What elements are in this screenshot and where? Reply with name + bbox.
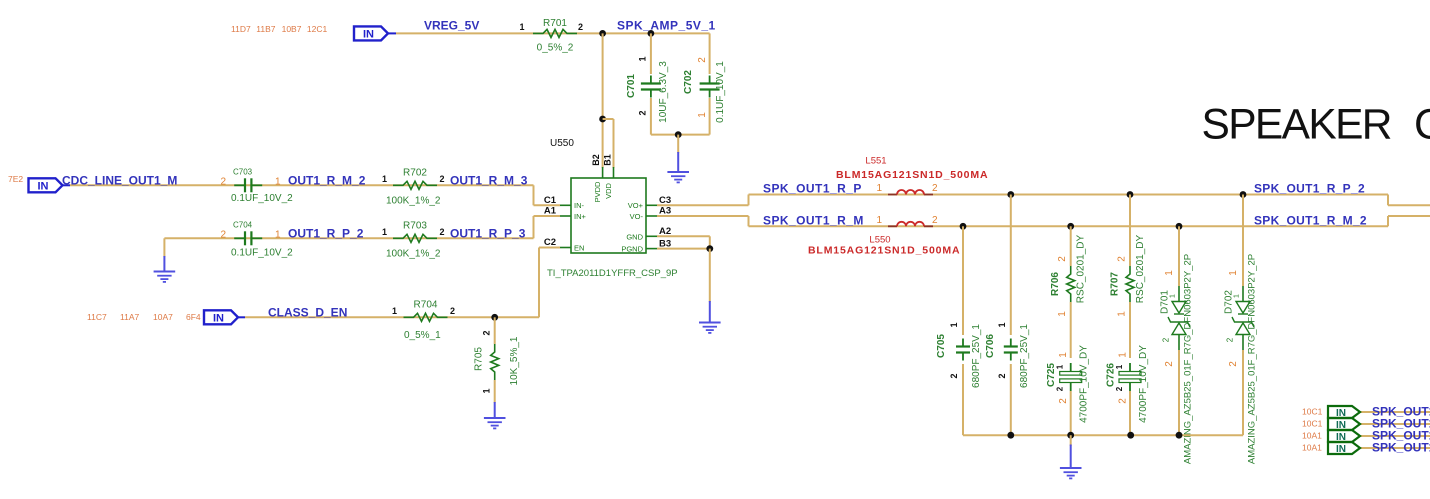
svg-text:6F4: 6F4 [186, 312, 201, 322]
svg-text:SPK_AMP_5V_1: SPK_AMP_5V_1 [617, 19, 716, 33]
svg-text:IN: IN [38, 180, 49, 192]
svg-text:1: 1 [1057, 311, 1068, 317]
svg-text:1: 1 [482, 388, 492, 393]
wire SPK_OUT1_R_P [749, 194, 1389, 196]
svg-text:IN: IN [1336, 444, 1346, 455]
port IN SPK_OUT 4 [1328, 442, 1360, 454]
wire cap bottom rail [651, 134, 710, 136]
svg-text:R703: R703 [403, 221, 427, 232]
svg-text:CONN: CONN [1414, 102, 1430, 149]
resistor R705 [494, 317, 496, 344]
diode D702 TVS [1242, 195, 1244, 287]
svg-text:C701: C701 [626, 74, 637, 98]
svg-text:1: 1 [697, 112, 708, 118]
svg-text:SPK_OUT1_R_P: SPK_OUT1_R_P [763, 182, 862, 196]
svg-text:680PF_25V_1: 680PF_25V_1 [1019, 324, 1030, 388]
svg-text:100K_1%_2: 100K_1%_2 [386, 196, 441, 207]
svg-text:1: 1 [1115, 364, 1124, 369]
wire VREG_5V net [396, 32, 710, 34]
svg-text:10UF_6.3V_3: 10UF_6.3V_3 [658, 61, 669, 123]
ground [484, 402, 506, 428]
svg-text:10K_5%_1: 10K_5%_1 [509, 336, 520, 385]
svg-text:10C1: 10C1 [1302, 419, 1323, 429]
svg-text:2: 2 [1056, 386, 1065, 391]
junction [599, 30, 606, 37]
svg-text:AMAZING_AZ5B25_01F_R7G_DFN0603: AMAZING_AZ5B25_01F_R7G_DFN0603P2Y_2P [1247, 254, 1258, 464]
svg-text:2: 2 [440, 227, 445, 237]
svg-text:EN: EN [574, 244, 584, 253]
svg-text:SPK_OUT1_R_M: SPK_OUT1_R_M [763, 213, 864, 227]
pin C2 [560, 247, 571, 249]
wire SPK_OUT 3 [1360, 435, 1430, 437]
wire to IN+ [533, 216, 535, 238]
svg-text:0_5%_2: 0_5%_2 [537, 43, 574, 54]
svg-text:B2: B2 [591, 154, 601, 166]
pin stub PVDD B2 [602, 167, 604, 178]
svg-text:2: 2 [932, 183, 938, 194]
svg-text:0_5%_1: 0_5%_1 [404, 330, 441, 341]
svg-text:SPK_OUT1_R_M_2: SPK_OUT1_R_M_2 [1254, 213, 1367, 227]
svg-text:1: 1 [1058, 352, 1069, 358]
pin C3 [646, 204, 657, 206]
svg-text:SPK_OUT1_R_P_2: SPK_OUT1_R_P_2 [1254, 181, 1365, 195]
svg-text:RSC_0201_DY: RSC_0201_DY [1135, 234, 1146, 303]
svg-text:2: 2 [997, 373, 1007, 378]
port IN SPK_OUT 3 [1328, 430, 1360, 442]
svg-text:10A7: 10A7 [153, 312, 173, 322]
svg-text:A1: A1 [544, 206, 557, 217]
wire SPK_OUT1_R_M [749, 225, 1389, 227]
svg-text:U550: U550 [550, 138, 574, 149]
svg-text:0.1UF_10V_1: 0.1UF_10V_1 [715, 61, 726, 123]
svg-text:1: 1 [1164, 270, 1175, 276]
svg-text:1: 1 [519, 22, 524, 32]
junctions M line [960, 223, 967, 230]
svg-text:2: 2 [949, 373, 959, 378]
svg-text:IN-: IN- [574, 201, 585, 210]
svg-text:TI_TPA2011D1YFFR_CSP_9P: TI_TPA2011D1YFFR_CSP_9P [547, 268, 678, 279]
wire gnd stub [677, 135, 679, 153]
pin A3 [646, 215, 657, 217]
pin stub VDD B1 [613, 167, 615, 178]
port IN CLASS_D_EN [204, 310, 238, 324]
svg-text:2: 2 [1117, 398, 1128, 404]
svg-text:1: 1 [275, 229, 281, 240]
svg-text:1: 1 [1228, 270, 1239, 276]
svg-text:1: 1 [1116, 311, 1127, 317]
svg-text:1: 1 [638, 56, 648, 61]
svg-text:2: 2 [1228, 361, 1239, 367]
svg-text:2: 2 [1058, 398, 1069, 404]
junction [675, 131, 682, 138]
pin B3 [646, 248, 657, 250]
capacitor C706 [1010, 195, 1012, 336]
pin C1 [560, 204, 571, 206]
ground [667, 152, 689, 182]
pin A1 [560, 215, 571, 217]
svg-text:1: 1 [382, 174, 387, 184]
svg-text:2: 2 [220, 176, 226, 187]
wire VO- out [657, 215, 749, 217]
ground [154, 256, 176, 282]
wire to IN- [533, 185, 535, 205]
svg-text:12C1: 12C1 [307, 24, 328, 34]
svg-text:R705: R705 [474, 347, 485, 371]
svg-text:PVDD: PVDD [593, 181, 602, 202]
svg-text:10A1: 10A1 [1302, 443, 1322, 453]
svg-text:C706: C706 [985, 334, 996, 358]
svg-text:2: 2 [697, 57, 708, 63]
svg-text:10A1: 10A1 [1302, 431, 1322, 441]
capacitor C726 [1129, 363, 1131, 372]
svg-text:VREG_5V: VREG_5V [424, 19, 479, 33]
svg-text:OUT1_R_M_3: OUT1_R_M_3 [450, 173, 528, 187]
svg-text:C704: C704 [233, 221, 253, 230]
svg-text:D701: D701 [1160, 290, 1171, 314]
svg-text:10B7: 10B7 [282, 24, 302, 34]
wire input P to gnd [164, 237, 533, 239]
wire CLASS_D_EN [245, 316, 539, 318]
svg-text:L551: L551 [865, 156, 886, 167]
svg-text:SPK_OUT1_R: SPK_OUT1_R [1372, 440, 1430, 454]
svg-text:CLASS_D_EN: CLASS_D_EN [268, 305, 347, 319]
svg-text:BLM15AG121SN1D_500MA: BLM15AG121SN1D_500MA [808, 245, 960, 257]
wire bottom rail [963, 434, 1243, 436]
capacitor C702 [709, 33, 711, 74]
wire to EN [538, 248, 540, 318]
wire SPK_OUT 2 [1360, 423, 1430, 425]
svg-text:1: 1 [1234, 294, 1241, 298]
svg-text:B1: B1 [603, 154, 613, 166]
svg-text:0.1UF_10V_2: 0.1UF_10V_2 [231, 248, 293, 259]
wire CDC_LINE_OUT1_M [70, 184, 534, 186]
svg-text:IN+: IN+ [574, 212, 587, 221]
wire M jog right [1387, 216, 1389, 226]
svg-text:RSC_0201_DY: RSC_0201_DY [1076, 234, 1087, 303]
svg-text:2: 2 [220, 229, 226, 240]
port IN VREG_5V [354, 26, 388, 40]
svg-text:OUT1_R_M_2: OUT1_R_M_2 [288, 173, 366, 187]
ground [699, 301, 721, 333]
svg-text:D702: D702 [1224, 290, 1235, 314]
svg-text:0.1UF_10V_2: 0.1UF_10V_2 [231, 193, 293, 204]
svg-text:11C7: 11C7 [87, 312, 107, 322]
op-amp U550 TPA2011 [571, 178, 646, 253]
svg-text:1: 1 [382, 227, 387, 237]
svg-text:2: 2 [932, 215, 938, 226]
svg-text:2: 2 [578, 22, 583, 32]
svg-text:2: 2 [1115, 386, 1124, 391]
svg-text:1: 1 [997, 322, 1007, 327]
svg-text:OUT1_R_P_3: OUT1_R_P_3 [450, 226, 526, 240]
svg-text:IN: IN [213, 312, 224, 324]
svg-text:1: 1 [1117, 352, 1128, 358]
port IN CDC_LINE_OUT1_M [29, 178, 63, 192]
svg-text:IN: IN [363, 28, 374, 40]
svg-text:1: 1 [1056, 364, 1065, 369]
svg-text:AMAZING_AZ5B25_01F_R7G_DFN0603: AMAZING_AZ5B25_01F_R7G_DFN0603P2Y_2P [1183, 254, 1194, 464]
junction [599, 116, 606, 123]
resistor R706 [1070, 226, 1072, 266]
svg-text:VDD: VDD [604, 183, 613, 199]
svg-text:7E2: 7E2 [8, 174, 23, 184]
svg-text:100K_1%_2: 100K_1%_2 [386, 249, 441, 260]
svg-text:2: 2 [638, 110, 648, 115]
capacitor C701 [650, 33, 652, 74]
svg-text:11A7: 11A7 [120, 312, 139, 322]
wire SPK_OUT 1 [1360, 411, 1430, 413]
svg-text:R704: R704 [414, 300, 438, 311]
svg-text:PGND: PGND [621, 245, 643, 254]
wire gnd stub [1070, 435, 1072, 446]
wire SPK_OUT 4 [1360, 447, 1430, 449]
svg-text:CDC_LINE_OUT1_M: CDC_LINE_OUT1_M [62, 173, 177, 187]
svg-text:C703: C703 [233, 168, 253, 177]
svg-text:C2: C2 [544, 237, 556, 248]
wire VO+ out [657, 204, 749, 206]
svg-text:2: 2 [450, 306, 455, 316]
svg-text:VO+: VO+ [628, 201, 644, 210]
capacitor C725 [1070, 363, 1072, 372]
svg-text:R701: R701 [543, 18, 567, 29]
capacitor C705 [962, 226, 964, 335]
svg-text:2: 2 [1164, 361, 1175, 367]
svg-text:1: 1 [876, 215, 882, 226]
svg-text:R702: R702 [403, 168, 427, 179]
svg-text:11B7: 11B7 [256, 24, 275, 34]
wire A2/B3 to gnd [657, 235, 710, 237]
wire VDD drop to U550 [602, 33, 604, 168]
svg-text:2: 2 [1057, 256, 1068, 262]
wire P jog right [1387, 195, 1389, 206]
pin A2 [646, 235, 657, 237]
svg-text:OUT1_R_P_2: OUT1_R_P_2 [288, 226, 364, 240]
junction [491, 314, 498, 321]
diode D701 TVS [1178, 226, 1180, 286]
svg-text:680PF_25V_1: 680PF_25V_1 [971, 324, 982, 388]
svg-text:10C1: 10C1 [1302, 407, 1323, 417]
svg-text:1: 1 [392, 306, 397, 316]
svg-text:2: 2 [1116, 256, 1127, 262]
svg-text:4700PF_10V_DY: 4700PF_10V_DY [1138, 345, 1149, 423]
svg-text:1: 1 [876, 183, 882, 194]
junction [706, 245, 713, 252]
svg-text:2: 2 [1226, 337, 1235, 342]
svg-text:R706: R706 [1050, 272, 1061, 296]
svg-text:SPEAKER: SPEAKER [1202, 102, 1393, 149]
svg-text:2: 2 [482, 330, 492, 335]
svg-text:C705: C705 [936, 334, 947, 358]
svg-text:BLM15AG121SN1D_500MA: BLM15AG121SN1D_500MA [836, 169, 988, 181]
svg-text:2: 2 [440, 174, 445, 184]
ground [1060, 445, 1082, 479]
svg-text:GND: GND [626, 233, 643, 242]
svg-text:C1: C1 [544, 195, 557, 206]
svg-text:R707: R707 [1109, 272, 1120, 296]
wire jog B1 [603, 118, 614, 120]
junctions P line [1007, 191, 1014, 198]
svg-text:C702: C702 [683, 70, 694, 94]
svg-text:4700PF_10V_DY: 4700PF_10V_DY [1079, 345, 1090, 423]
resistor R707 [1129, 195, 1131, 267]
svg-text:11D7: 11D7 [231, 24, 251, 34]
svg-text:2: 2 [1162, 337, 1171, 342]
svg-text:VO-: VO- [630, 212, 644, 221]
svg-text:1: 1 [275, 176, 281, 187]
port IN SPK_OUT 2 [1328, 418, 1360, 430]
svg-text:1: 1 [949, 322, 959, 327]
junctions bottom rail [1007, 432, 1014, 439]
svg-text:1: 1 [1170, 294, 1177, 298]
port IN SPK_OUT 1 [1328, 406, 1360, 418]
junction [648, 30, 655, 37]
